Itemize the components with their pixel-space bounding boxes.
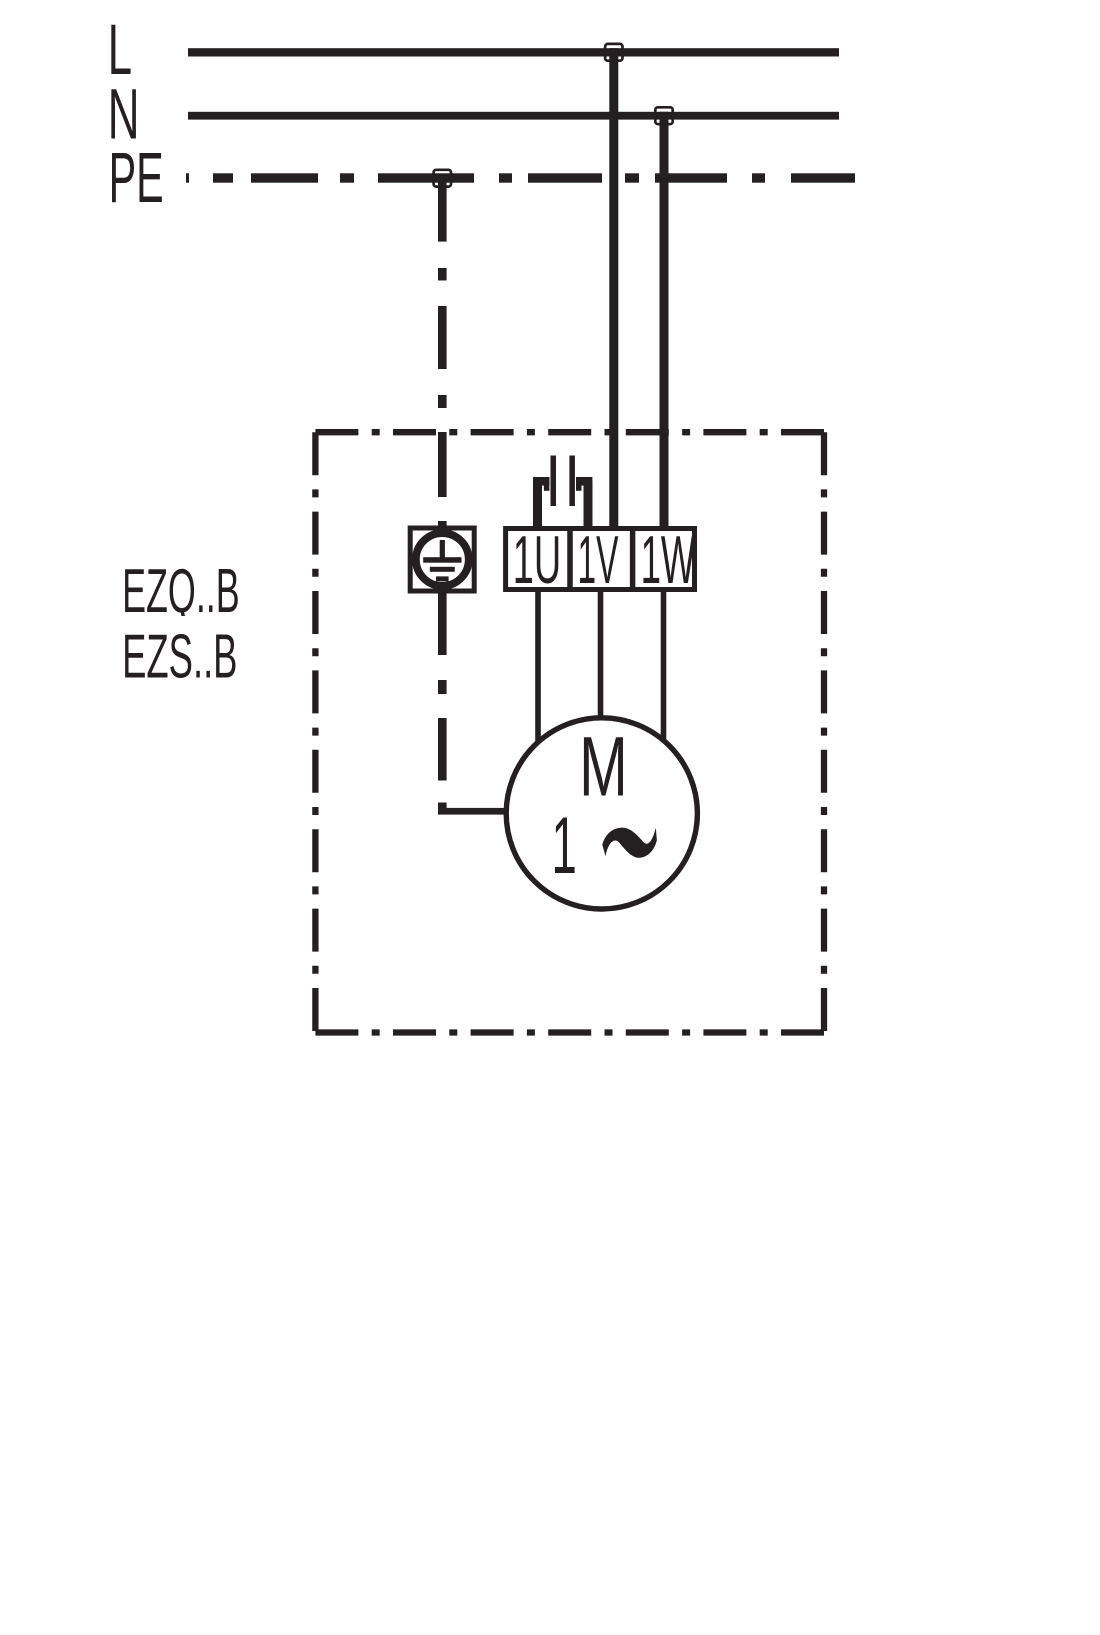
svg-text:1: 1: [552, 800, 577, 890]
svg-text:1W: 1W: [641, 523, 696, 598]
svg-text:1V: 1V: [578, 523, 619, 598]
svg-text:EZQ..B: EZQ..B: [122, 556, 240, 626]
svg-text:1U: 1U: [513, 523, 561, 598]
svg-text:EZS..B: EZS..B: [122, 621, 237, 691]
svg-text:M: M: [579, 721, 628, 814]
svg-text:PE: PE: [109, 138, 164, 218]
